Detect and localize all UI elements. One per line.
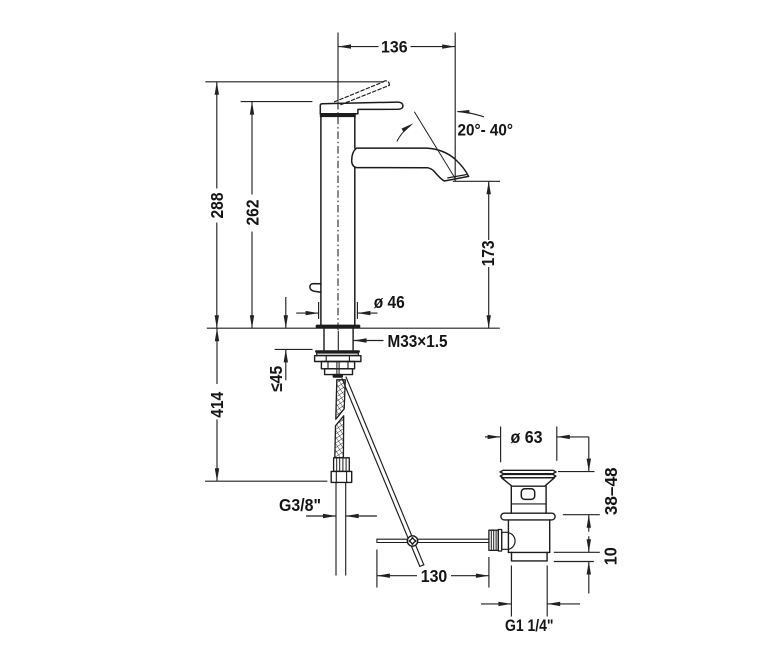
svg-text:414: 414 bbox=[207, 392, 227, 418]
faucet body left edge bbox=[320, 117, 322, 325]
angle reference thin line through spout bbox=[415, 112, 456, 179]
leader M33x1.5 bbox=[354, 338, 384, 342]
lock block bbox=[321, 362, 354, 369]
horizontal lift rod bbox=[377, 539, 489, 542]
svg-text:130: 130 bbox=[421, 566, 448, 586]
svg-text:10: 10 bbox=[601, 547, 621, 565]
extension line: spout tip vertical (through spout) bbox=[454, 148, 456, 181]
lower block bbox=[325, 369, 353, 375]
dimension G3/8 extension lines bbox=[306, 483, 377, 576]
svg-text:M33×1.5: M33×1.5 bbox=[388, 331, 448, 351]
spout aerator line bbox=[448, 175, 466, 178]
extension line: spout outlet level y=181.3 bbox=[453, 180, 500, 182]
drain tailpiece bbox=[512, 552, 548, 561]
rod connector neck bbox=[502, 532, 515, 549]
cap joint band (dark) bbox=[320, 114, 356, 117]
drain rim upper lens bbox=[500, 470, 556, 473]
svg-text:≤45: ≤45 bbox=[266, 366, 286, 392]
dimension 130 bbox=[377, 550, 489, 588]
dimension 173 line bbox=[487, 181, 491, 328]
dimension le45 upper arrow bbox=[284, 297, 288, 328]
braided hose lower section bbox=[335, 416, 344, 458]
pull rod double line below nut bbox=[337, 362, 339, 375]
rod connector knurled nut bbox=[489, 530, 498, 550]
dimension 38-48 arrows bbox=[587, 437, 591, 532]
centerline dash-dot of faucet axis bbox=[337, 102, 339, 330]
extension line: collar level y=514.7 bbox=[563, 514, 600, 516]
rod guide (dark) bbox=[333, 374, 343, 378]
dimension dia63 bbox=[485, 427, 589, 463]
rod connector plate bbox=[498, 530, 501, 552]
angle curved arrow bbox=[397, 123, 414, 141]
angle leader arrow to extension line bbox=[456, 110, 484, 117]
svg-text:20°- 40°: 20°- 40° bbox=[458, 121, 514, 139]
extension line: body bottom y=552.3 bbox=[554, 551, 600, 553]
dimension 262 line bbox=[250, 102, 254, 329]
drain funnel cone bbox=[502, 478, 555, 487]
extension line: hose end level y=481.2 bbox=[205, 480, 327, 482]
svg-text:38–48: 38–48 bbox=[601, 467, 621, 515]
counter top line bbox=[207, 327, 500, 329]
threaded shank bbox=[324, 328, 353, 350]
svg-text:136: 136 bbox=[381, 39, 408, 57]
washer 2 bbox=[317, 353, 359, 355]
extension line: faucet axis above lever bbox=[337, 33, 339, 102]
dimension le45 lower arrow bbox=[284, 349, 288, 380]
dimension 414 line bbox=[215, 328, 219, 481]
spout bbox=[352, 148, 469, 181]
svg-text:G1 1/4": G1 1/4" bbox=[505, 617, 554, 635]
lever handle (solid, horizontal position) bbox=[320, 102, 403, 114]
svg-text:ø 46: ø 46 bbox=[374, 292, 405, 312]
svg-text:G3/8": G3/8" bbox=[279, 495, 321, 515]
pull rod inside shank bbox=[337, 331, 339, 350]
overflow window bbox=[521, 489, 534, 500]
drain rim lower lens bbox=[500, 474, 556, 477]
fixing tab on body bbox=[310, 284, 321, 293]
dimension 136 line bbox=[338, 44, 455, 48]
svg-text:262: 262 bbox=[242, 199, 262, 225]
dimension 10 arrows bbox=[587, 536, 591, 593]
drain upper body bbox=[511, 486, 546, 513]
lever handle raised (dashed outline) bbox=[335, 81, 390, 105]
drain lower body bbox=[508, 520, 549, 553]
rod ball joint bbox=[407, 536, 417, 546]
dimension G1 1/4 bbox=[481, 566, 580, 617]
pull rod diagonal (double line) bbox=[342, 377, 424, 566]
dimension dia46 ticks and arrows bbox=[296, 302, 377, 319]
braided hose upper section bbox=[336, 380, 346, 419]
dimension 288 line bbox=[215, 82, 219, 328]
hose G3/8 hex nut bbox=[331, 471, 352, 482]
faucet body right edge (interrupted by spout) bbox=[354, 117, 356, 148]
extension line: rim level y=471.6 bbox=[558, 471, 595, 473]
extension line: top of raised lever y=81.8 bbox=[205, 81, 383, 83]
svg-text:173: 173 bbox=[478, 240, 498, 266]
extension line: underside fixing y=349.4 bbox=[275, 348, 313, 350]
svg-text:ø 63: ø 63 bbox=[511, 427, 543, 447]
hose ribbed ferrule bbox=[334, 458, 350, 472]
extension line: spout tip vertical (upper part) bbox=[454, 33, 456, 149]
extension line: tailpiece bottom y=561.5 bbox=[554, 561, 594, 563]
mounting hex nut bbox=[315, 356, 361, 362]
extension line: top of lever y=101.6 bbox=[241, 101, 313, 103]
washer (dark) bbox=[315, 350, 360, 352]
base plate (dark) bbox=[316, 325, 361, 329]
drain collar flange bbox=[501, 513, 555, 520]
svg-text:288: 288 bbox=[207, 192, 227, 218]
